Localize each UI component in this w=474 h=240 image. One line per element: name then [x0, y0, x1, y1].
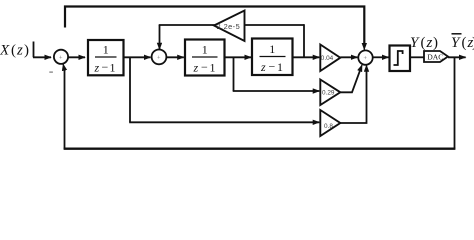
wire resonator gain output down into S2 [159, 25, 161, 49]
wire J2 to gain G2 (0.29) [233, 90, 320, 92]
DAC block [424, 51, 448, 62]
wire DAC to output [448, 56, 466, 58]
svg-text:): ) [433, 35, 438, 51]
svg-text:0.04: 0.04 [321, 55, 334, 62]
svg-text:−: − [102, 60, 109, 74]
wire quantizer to DAC [410, 56, 424, 58]
node tap J3 feedback takeoff [454, 57, 456, 148]
svg-text:1: 1 [277, 60, 283, 74]
wire G3 to S3 (right then up) [340, 68, 366, 123]
svg-text:z: z [426, 35, 433, 51]
wire bottom feedback rail [64, 147, 456, 149]
summer S3 [358, 50, 372, 64]
svg-text:0.29: 0.29 [322, 90, 335, 97]
svg-text:): ) [24, 43, 29, 59]
svg-text:z: z [94, 61, 100, 75]
minus sign for feedback input of S1 [49, 72, 53, 73]
input port tick [33, 42, 35, 58]
node Ybar(z) output label [452, 33, 462, 35]
svg-text:1: 1 [103, 43, 109, 57]
svg-text:1: 1 [269, 42, 275, 56]
gain G2 triangle 0.29 [320, 80, 340, 106]
integrator I3 block 1/(z-1) [252, 39, 293, 76]
svg-text:+: + [59, 54, 63, 61]
svg-text:Y: Y [410, 35, 420, 51]
svg-text:X: X [0, 43, 10, 59]
svg-text:2.2e-5: 2.2e-5 [217, 22, 241, 31]
wire X(z) to summer S1 [33, 56, 51, 58]
svg-text:(: ( [11, 43, 16, 59]
node tap J2 on I2 output [233, 57, 235, 91]
svg-text:(: ( [462, 35, 467, 51]
wire I3 output tap to G0 input [245, 24, 305, 26]
wire S1 to integrator I1 [68, 56, 85, 58]
svg-text:1: 1 [110, 61, 116, 75]
wire tap down to main line after I3 [303, 24, 305, 57]
wire I2 to integrator I3 [225, 56, 252, 58]
quantizer Q block [390, 46, 411, 72]
wire gain G0 output to S2 branch [159, 24, 215, 26]
svg-text:+: + [157, 55, 161, 62]
wire feedback up into S1 [64, 69, 66, 149]
wire G1 to summer S3 [340, 56, 357, 58]
wire G2 to S3 (horizontal then diagonal) [340, 68, 361, 93]
wire S3 to quantizer Q [373, 56, 389, 58]
node tap J1 on I1 output [129, 57, 131, 122]
gain G0 triangle -2.2e-5 (points left) [214, 11, 245, 42]
svg-text:+: + [363, 55, 367, 62]
svg-text:Y: Y [451, 35, 461, 51]
gain G3 triangle 0.8 [320, 110, 340, 136]
svg-text:(: ( [421, 35, 426, 51]
svg-text:z: z [260, 60, 266, 74]
wire S2 to integrator I2 [166, 56, 184, 58]
svg-text:DAC: DAC [427, 52, 443, 61]
integrator I2 block 1/(z-1) [185, 40, 225, 76]
summer S2 [152, 50, 167, 65]
svg-text:0.8: 0.8 [324, 123, 333, 130]
summer S1 [54, 50, 68, 64]
svg-text:z: z [193, 61, 199, 75]
svg-text:−: − [269, 60, 276, 74]
svg-text:1: 1 [202, 43, 208, 57]
wire J1 to gain G3 (0.8) [129, 121, 319, 123]
top rail: input feedforward into S3 [65, 7, 364, 44]
gain G1 triangle 0.04 [320, 45, 340, 72]
svg-text:z: z [16, 43, 23, 59]
svg-text:−: − [201, 60, 208, 74]
integrator I1 block 1/(z-1) [88, 40, 124, 75]
wire I1 to summer S2 [124, 56, 151, 58]
svg-text:1: 1 [210, 61, 216, 75]
wire I3 to gain G1 (0.04) [293, 56, 320, 58]
